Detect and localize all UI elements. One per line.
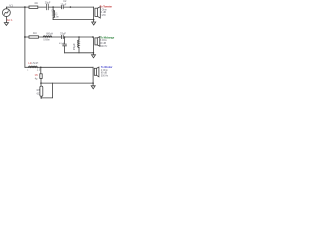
- shunt branch wire bottom: [40, 67, 42, 74]
- svg-text:91 dB: 91 dB: [100, 12, 106, 14]
- svg-text:0.68m: 0.68m: [43, 40, 49, 42]
- svg-text:500 Hz: 500 Hz: [100, 46, 108, 48]
- svg-text:33µF: 33µF: [60, 32, 66, 36]
- capacitor C3 mid row series: [62, 35, 64, 38]
- node mid return: [93, 52, 95, 54]
- ground under V1: [4, 23, 8, 26]
- node woofer return left: [40, 82, 42, 84]
- node mid shunt C: [64, 36, 66, 38]
- svg-text:90 dB: 90 dB: [100, 43, 106, 45]
- junction dots: [24, 6, 94, 99]
- capacitor C1 top row: [46, 4, 48, 10]
- svg-text:500 Hz: 500 Hz: [101, 76, 109, 78]
- svg-text:AC 1: AC 1: [7, 18, 13, 22]
- svg-text:4Ω: 4Ω: [33, 31, 37, 35]
- svg-text:680µH: 680µH: [46, 33, 53, 35]
- voltage source V1: [3, 9, 11, 17]
- svg-text:47µF: 47µF: [59, 43, 65, 45]
- V1 top stem: [5, 7, 7, 9]
- svg-text:89 dB: 89 dB: [101, 73, 107, 75]
- capacitor C4 mid shunt: [64, 37, 66, 44]
- background: [0, 0, 119, 100]
- V1 bottom stem: [5, 17, 7, 23]
- wire tweeter return: [53, 19, 94, 21]
- ground midrange: [92, 53, 94, 55]
- svg-text:15µF: 15µF: [72, 43, 76, 50]
- svg-text:15µF: 15µF: [60, 3, 66, 7]
- svg-text:To Midrange: To Midrange: [100, 36, 115, 39]
- svg-text:1.5mH: 1.5mH: [31, 62, 38, 65]
- inductor L4 bottom series: [28, 66, 37, 67]
- sine symbol inside V1: [5, 11, 9, 14]
- wire bottom row main: [25, 66, 93, 68]
- node mid speaker: [92, 36, 94, 38]
- speaker S3 woofer: [92, 67, 94, 83]
- node bottom rail: [40, 97, 42, 99]
- wire input bus vertical: [24, 7, 26, 67]
- svg-text:8 Ohm: 8 Ohm: [100, 9, 107, 11]
- node C1/L1: [52, 6, 54, 8]
- node tweeter return: [93, 19, 95, 21]
- resistor R3 bottom shunt: [40, 86, 43, 96]
- wire top row main: [6, 6, 93, 8]
- svg-text:20µF: 20µF: [45, 2, 51, 5]
- wire mid row main: [25, 36, 94, 38]
- wire bottom rail: [41, 83, 52, 98]
- capacitor C5 bottom shunt (box style): [40, 74, 42, 79]
- inductor L3 mid shunt: [78, 37, 80, 40]
- node top bus: [24, 6, 26, 8]
- node mid shunt L: [78, 36, 80, 38]
- wire mid return bus: [65, 52, 94, 54]
- svg-text:.3m: .3m: [55, 16, 59, 19]
- ground woofer: [92, 83, 94, 86]
- svg-text:2 kHz: 2 kHz: [100, 15, 107, 17]
- inductor L2 mid row series: [43, 36, 52, 37]
- svg-text:To Tweeter: To Tweeter: [100, 6, 112, 9]
- inductor L1 shunt top row: [52, 7, 54, 10]
- svg-text:V1: V1: [9, 4, 13, 8]
- speaker S1 tweeter: [93, 7, 95, 20]
- node woofer return right: [92, 82, 94, 84]
- resistor R1 top row: [29, 6, 38, 8]
- svg-text:1.5: 1.5: [37, 69, 41, 72]
- resistor R2 mid row: [29, 36, 38, 38]
- svg-text:4Ω: 4Ω: [34, 1, 37, 5]
- svg-text:To Woofer: To Woofer: [101, 66, 113, 69]
- svg-text:8 Ohm: 8 Ohm: [100, 40, 107, 42]
- ground tweeter: [93, 20, 95, 22]
- node bottom shunt: [40, 67, 42, 69]
- speaker S2 midrange: [92, 37, 94, 53]
- svg-text:6Ω: 6Ω: [37, 92, 40, 95]
- wire woofer return: [41, 82, 93, 84]
- node top mid: [70, 6, 72, 8]
- capacitor C2 top row series: [62, 6, 64, 9]
- node mid bus: [24, 36, 26, 38]
